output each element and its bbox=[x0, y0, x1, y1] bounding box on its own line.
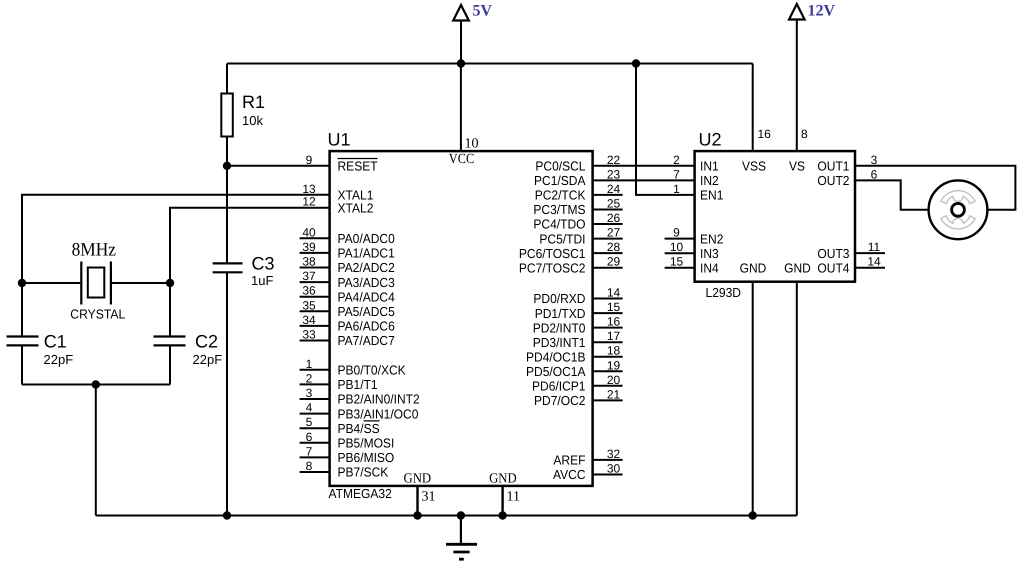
svg-text:U1: U1 bbox=[328, 130, 351, 150]
svg-text:8MHz: 8MHz bbox=[72, 240, 116, 261]
svg-text:33: 33 bbox=[302, 328, 316, 342]
svg-text:PA6/ADC6: PA6/ADC6 bbox=[338, 319, 395, 334]
svg-text:3: 3 bbox=[871, 153, 878, 167]
svg-text:30: 30 bbox=[607, 462, 621, 476]
svg-text:23: 23 bbox=[607, 167, 621, 181]
U1 pin 19 PD5/OC1A bbox=[526, 358, 623, 379]
svg-text:PC1/SDA: PC1/SDA bbox=[534, 173, 586, 188]
svg-text:C3: C3 bbox=[252, 254, 275, 274]
svg-text:16: 16 bbox=[607, 315, 621, 329]
wire: PC1/SDA to U2 IN2 bbox=[593, 179, 695, 181]
U1 pin 10 VCC bbox=[449, 64, 479, 168]
svg-text:PA2/ADC2: PA2/ADC2 bbox=[338, 260, 395, 275]
svg-text:R1: R1 bbox=[242, 92, 265, 112]
wire: crystal bottom (C1 to C2) bbox=[22, 384, 170, 386]
svg-text:32: 32 bbox=[607, 447, 621, 461]
junction: R1 / RESET wire bbox=[223, 162, 231, 170]
svg-text:7: 7 bbox=[306, 444, 313, 458]
svg-text:ATMEGA32: ATMEGA32 bbox=[329, 486, 392, 501]
U2 pin 7 IN2 bbox=[673, 167, 719, 188]
svg-text:PC4/TDO: PC4/TDO bbox=[533, 217, 585, 232]
svg-text:IN2: IN2 bbox=[700, 173, 719, 188]
U2 pin 1 EN1 bbox=[673, 182, 723, 203]
U1 pin 25 PC3/TMS bbox=[533, 197, 622, 218]
svg-text:PB3/AIN1/OC0: PB3/AIN1/OC0 bbox=[338, 406, 419, 421]
junction: ground symbol / ground bus bbox=[457, 511, 465, 519]
svg-text:PD1/TXD: PD1/TXD bbox=[535, 306, 586, 321]
power symbol 5V bbox=[453, 3, 492, 64]
svg-text:31: 31 bbox=[422, 490, 436, 505]
svg-text:6: 6 bbox=[871, 167, 878, 181]
wire: XTAL2 net bbox=[170, 208, 330, 337]
svg-text:PD2/INT0: PD2/INT0 bbox=[533, 320, 586, 335]
svg-text:14: 14 bbox=[607, 286, 621, 300]
svg-text:GND: GND bbox=[784, 260, 811, 275]
svg-text:10: 10 bbox=[465, 137, 479, 152]
wire: U2 EN1 to +5V rail bbox=[636, 64, 695, 195]
ground symbol bbox=[446, 516, 477, 560]
svg-text:PB0/T0/XCK: PB0/T0/XCK bbox=[338, 363, 406, 378]
wire: XTAL1 net bbox=[22, 195, 330, 337]
U1 pin 22 PC0/SCL bbox=[535, 153, 620, 174]
U2 pin 11 OUT3 bbox=[817, 240, 885, 261]
U1 pin 1 PB0/T0/XCK bbox=[300, 357, 406, 378]
U1 pin 24 PC2/TCK bbox=[535, 182, 623, 203]
svg-text:C1: C1 bbox=[44, 332, 67, 352]
wire: crystal left lead bbox=[22, 282, 80, 284]
capacitor C3 bbox=[213, 263, 243, 272]
svg-text:9: 9 bbox=[306, 153, 313, 167]
svg-text:19: 19 bbox=[607, 358, 621, 372]
U1 pin 28 PC6/TOSC1 bbox=[519, 240, 623, 261]
svg-text:15: 15 bbox=[607, 300, 621, 314]
svg-text:PC6/TOSC1: PC6/TOSC1 bbox=[519, 246, 586, 261]
U1 pin 12 XTAL2 bbox=[302, 195, 373, 216]
svg-text:36: 36 bbox=[302, 284, 316, 298]
svg-text:6: 6 bbox=[306, 430, 313, 444]
svg-text:40: 40 bbox=[302, 225, 316, 239]
capacitor C1 bbox=[7, 337, 39, 385]
U1 pin 26 PC4/TDO bbox=[533, 211, 622, 232]
svg-text:VSS: VSS bbox=[742, 159, 766, 174]
wire: PC0/SCL to U2 IN1 bbox=[593, 165, 695, 167]
svg-text:7: 7 bbox=[673, 167, 680, 181]
U1 pin 20 PD6/ICP1 bbox=[532, 373, 623, 394]
svg-text:OUT1: OUT1 bbox=[817, 159, 849, 174]
svg-text:PA7/ADC7: PA7/ADC7 bbox=[338, 333, 395, 348]
svg-text:3: 3 bbox=[306, 386, 313, 400]
crystal X1 bbox=[81, 262, 111, 305]
svg-text:XTAL2: XTAL2 bbox=[338, 200, 374, 215]
U2 pin 14 OUT4 bbox=[817, 255, 885, 276]
U2 pin 3 OUT1 bbox=[817, 153, 877, 174]
svg-text:14: 14 bbox=[867, 255, 881, 269]
IC U2 L293D box bbox=[695, 151, 855, 282]
resistor R1 bbox=[221, 64, 233, 166]
svg-text:PC5/TDI: PC5/TDI bbox=[539, 231, 585, 246]
svg-text:8: 8 bbox=[801, 127, 808, 141]
svg-text:PB1/T1: PB1/T1 bbox=[338, 377, 378, 392]
svg-text:20: 20 bbox=[607, 373, 621, 387]
U2 pin 16 VSS bbox=[742, 64, 771, 174]
svg-text:OUT4: OUT4 bbox=[817, 260, 849, 275]
U1 pin 7 PB6/MISO bbox=[300, 444, 395, 465]
svg-text:22pF: 22pF bbox=[193, 352, 223, 367]
svg-text:GND: GND bbox=[404, 471, 432, 486]
svg-text:GND: GND bbox=[489, 471, 517, 486]
U1 pin 3 PB2/AIN0/INT2 bbox=[300, 386, 420, 407]
wire: OUT1 to motor bbox=[855, 166, 1015, 210]
junction: XTAL1 / crystal bbox=[18, 279, 26, 287]
svg-text:35: 35 bbox=[302, 298, 316, 312]
U2 GND pin (left) bbox=[740, 260, 767, 515]
U2 pin 8 VS bbox=[789, 127, 808, 174]
U1 pin 9 RESET bbox=[306, 153, 378, 174]
svg-text:18: 18 bbox=[607, 344, 621, 358]
U1 pin 29 PC7/TOSC2 bbox=[519, 255, 623, 276]
svg-text:PA5/ADC5: PA5/ADC5 bbox=[338, 304, 395, 319]
svg-text:9: 9 bbox=[673, 226, 680, 240]
U1 pin 15 PD1/TXD bbox=[535, 300, 623, 321]
svg-text:24: 24 bbox=[607, 182, 621, 196]
svg-text:AREF: AREF bbox=[553, 453, 585, 468]
svg-text:VCC: VCC bbox=[449, 152, 474, 167]
U1 pin 14 PD0/RXD bbox=[533, 286, 622, 307]
capacitor C2 bbox=[154, 337, 186, 385]
wire: crystal ground stem bbox=[95, 385, 97, 516]
svg-text:PD7/OC2: PD7/OC2 bbox=[534, 393, 586, 408]
junction: crystal bottom / ground stem bbox=[92, 380, 100, 388]
svg-text:2: 2 bbox=[306, 371, 313, 385]
U1 pin 8 PB7/SCK bbox=[300, 459, 389, 480]
U1 pin 16 PD2/INT0 bbox=[533, 315, 623, 336]
U1 pin 21 PD7/OC2 bbox=[534, 387, 623, 408]
junction: 5V rail / EN1 drop bbox=[632, 59, 640, 67]
svg-text:1: 1 bbox=[306, 357, 313, 371]
svg-text:PD3/INT1: PD3/INT1 bbox=[533, 335, 586, 350]
power symbol 12V bbox=[789, 3, 836, 152]
U1 pin 11 GND bbox=[489, 471, 520, 515]
svg-text:10: 10 bbox=[670, 240, 684, 254]
U1 pin 40 PA0/ADC0 bbox=[300, 225, 395, 246]
svg-text:27: 27 bbox=[607, 226, 621, 240]
U1 pin 37 PA3/ADC3 bbox=[300, 269, 395, 290]
svg-text:8: 8 bbox=[306, 459, 313, 473]
svg-text:26: 26 bbox=[607, 211, 621, 225]
svg-text:PD4/OC1B: PD4/OC1B bbox=[526, 349, 586, 364]
svg-text:PB7/SCK: PB7/SCK bbox=[338, 465, 389, 480]
U1 pin 30 AVCC bbox=[553, 462, 623, 483]
svg-text:PC0/SCL: PC0/SCL bbox=[535, 159, 585, 174]
svg-text:OUT3: OUT3 bbox=[817, 246, 849, 261]
svg-text:11: 11 bbox=[868, 240, 881, 254]
U1 pin 38 PA2/ADC2 bbox=[300, 255, 395, 276]
svg-text:PA0/ADC0: PA0/ADC0 bbox=[338, 231, 395, 246]
U1 pin 4 PB3/AIN1/OC0 bbox=[300, 401, 419, 422]
svg-text:L293D: L293D bbox=[706, 285, 742, 300]
wire: C3 to ground bus bbox=[226, 272, 228, 515]
U2 GND pin (right) bbox=[784, 260, 811, 515]
svg-text:1uF: 1uF bbox=[251, 273, 273, 288]
svg-text:1: 1 bbox=[673, 182, 680, 196]
U1 pin 6 PB5/MOSI bbox=[300, 430, 395, 451]
svg-text:15: 15 bbox=[670, 255, 684, 269]
junction: U1 GND11 / ground bus bbox=[498, 511, 506, 519]
svg-text:PC7/TOSC2: PC7/TOSC2 bbox=[519, 260, 586, 275]
svg-text:PC2/TCK: PC2/TCK bbox=[535, 188, 586, 203]
svg-text:PD0/RXD: PD0/RXD bbox=[533, 291, 585, 306]
U1 pin 13 XTAL1 bbox=[302, 182, 373, 203]
svg-text:PD6/ICP1: PD6/ICP1 bbox=[532, 379, 586, 394]
U2 pin 10 IN3 bbox=[665, 240, 719, 261]
svg-text:PD5/OC1A: PD5/OC1A bbox=[526, 364, 586, 379]
svg-text:17: 17 bbox=[607, 329, 621, 343]
svg-text:28: 28 bbox=[607, 240, 621, 254]
junction: XTAL2 / crystal bbox=[166, 279, 174, 287]
svg-text:IN3: IN3 bbox=[700, 246, 719, 261]
svg-text:22: 22 bbox=[607, 153, 621, 167]
svg-text:4: 4 bbox=[306, 401, 313, 415]
svg-text:11: 11 bbox=[507, 490, 520, 505]
svg-text:22pF: 22pF bbox=[44, 352, 74, 367]
svg-text:5: 5 bbox=[306, 415, 313, 429]
U1 pin 27 PC5/TDI bbox=[539, 226, 622, 247]
U2 pin 15 IN4 bbox=[665, 255, 719, 276]
svg-text:PA1/ADC1: PA1/ADC1 bbox=[338, 246, 395, 261]
U2 pin 6 OUT2 bbox=[817, 167, 877, 188]
svg-text:21: 21 bbox=[607, 387, 621, 401]
svg-text:OUT2: OUT2 bbox=[817, 173, 849, 188]
wire: ground bus bbox=[96, 515, 797, 517]
U1 pin 23 PC1/SDA bbox=[534, 167, 620, 188]
svg-text:PB2/AIN0/INT2: PB2/AIN0/INT2 bbox=[338, 392, 420, 407]
wire: +5V rail bbox=[227, 63, 753, 65]
svg-text:IN1: IN1 bbox=[700, 159, 719, 174]
svg-text:GND: GND bbox=[740, 260, 767, 275]
U1 pin 5 PB4/SS bbox=[300, 415, 380, 436]
U2 pin 9 EN2 bbox=[665, 226, 724, 247]
svg-text:12: 12 bbox=[302, 195, 316, 209]
wire: crystal right lead bbox=[112, 282, 170, 284]
wire: R1 to C3 vertical bbox=[226, 166, 228, 264]
svg-text:U2: U2 bbox=[699, 130, 722, 150]
svg-text:PA4/ADC4: PA4/ADC4 bbox=[338, 289, 395, 304]
U1 pin 18 PD4/OC1B bbox=[526, 344, 623, 365]
svg-text:16: 16 bbox=[758, 127, 772, 141]
svg-text:PB4/: PB4/ bbox=[338, 421, 364, 436]
svg-text:12V: 12V bbox=[808, 3, 836, 20]
svg-text:IN4: IN4 bbox=[700, 260, 719, 275]
U1 pin 35 PA5/ADC5 bbox=[300, 298, 395, 319]
svg-text:PB6/MISO: PB6/MISO bbox=[338, 450, 395, 465]
svg-text:VS: VS bbox=[789, 159, 805, 174]
svg-text:25: 25 bbox=[607, 197, 621, 211]
junction: U1 GND31 / ground bus bbox=[413, 511, 421, 519]
svg-text:SS: SS bbox=[364, 421, 380, 436]
junction: C3 / ground bus bbox=[223, 511, 231, 519]
svg-text:2: 2 bbox=[673, 153, 680, 167]
svg-text:CRYSTAL: CRYSTAL bbox=[70, 306, 125, 321]
U1 pin 31 GND bbox=[404, 471, 436, 515]
svg-text:PC3/TMS: PC3/TMS bbox=[533, 202, 585, 217]
wire: OUT2 to motor bbox=[855, 180, 928, 209]
U1 pin 17 PD3/INT1 bbox=[533, 329, 623, 350]
U1 pin 39 PA1/ADC1 bbox=[300, 240, 395, 261]
svg-text:29: 29 bbox=[607, 255, 621, 269]
junction: U2 GND / ground bus bbox=[749, 511, 757, 519]
U1 pin 34 PA6/ADC6 bbox=[300, 313, 395, 334]
svg-text:5V: 5V bbox=[473, 3, 493, 20]
svg-text:13: 13 bbox=[302, 182, 316, 196]
svg-text:PB5/MOSI: PB5/MOSI bbox=[338, 436, 395, 451]
svg-text:C2: C2 bbox=[195, 332, 218, 352]
U1 pin 2 PB1/T1 bbox=[300, 371, 378, 392]
U1 pin 36 PA4/ADC4 bbox=[300, 284, 395, 305]
svg-text:10k: 10k bbox=[242, 113, 263, 128]
U2 pin 2 IN1 bbox=[673, 153, 719, 174]
motor M1 bbox=[929, 180, 988, 239]
U1 pin 33 PA7/ADC7 bbox=[300, 328, 395, 349]
svg-text:PA3/ADC3: PA3/ADC3 bbox=[338, 275, 395, 290]
svg-text:34: 34 bbox=[302, 313, 316, 327]
svg-text:39: 39 bbox=[302, 240, 316, 254]
svg-text:RESET: RESET bbox=[338, 159, 378, 174]
U1 pin 32 AREF bbox=[553, 447, 622, 468]
svg-text:38: 38 bbox=[302, 255, 316, 269]
op IC U1 ATMEGA32 box bbox=[330, 151, 593, 486]
wire: RESET net (R1 to U1 pin 9) bbox=[227, 165, 330, 167]
svg-text:AVCC: AVCC bbox=[553, 467, 586, 482]
junction: 5V rail / VCC bbox=[457, 59, 465, 67]
svg-text:EN2: EN2 bbox=[700, 231, 723, 246]
svg-text:37: 37 bbox=[302, 269, 316, 283]
svg-text:EN1: EN1 bbox=[700, 188, 723, 203]
